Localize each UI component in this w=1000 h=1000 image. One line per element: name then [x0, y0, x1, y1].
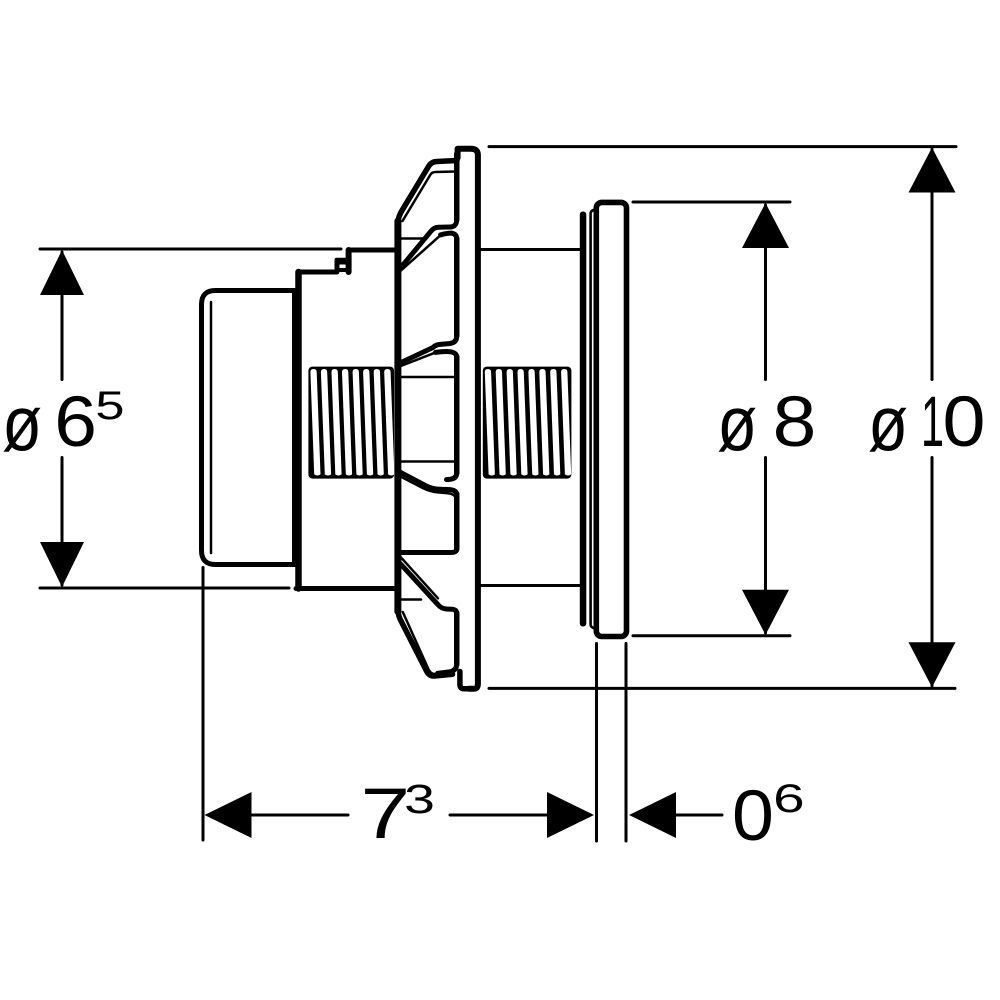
- plate top cap: [458, 149, 478, 689]
- svg-text:0: 0: [943, 383, 986, 462]
- cone bottom inner thin: [403, 612, 446, 674]
- tooth gap3 diagonal: [399, 471, 457, 493]
- button cap outline: [202, 291, 295, 565]
- dia8 arrow up: [742, 203, 789, 248]
- dim ext line bottom left: [40, 587, 289, 590]
- plate B: [591, 210, 603, 628]
- svg-text:ø: ø: [2, 379, 42, 467]
- sleeve silhouette thin bottom: [481, 584, 581, 587]
- bottom tooth hook: [438, 665, 457, 674]
- dim73 line right: [450, 814, 547, 817]
- tooth gap4 diagonal: [400, 563, 457, 613]
- dim73 arrow right: [547, 792, 594, 838]
- nut step vertical: [346, 250, 352, 272]
- dim73 arrow left: [205, 792, 252, 838]
- dim06 tail line: [674, 814, 722, 817]
- button face inner line: [210, 302, 213, 553]
- wall plate C: [596, 202, 626, 636]
- sleeve silhouette thin top: [481, 248, 581, 251]
- tooth seg3 top curl: [436, 352, 457, 357]
- thread left white ribs: [310, 369, 394, 476]
- dim06 arrow left-pointing: [629, 792, 676, 838]
- thread left section background: [308, 367, 394, 479]
- svg-text:6: 6: [54, 383, 97, 462]
- dim73 line left: [252, 814, 348, 817]
- tooth seg2 top curl: [441, 233, 457, 238]
- tube root top thin: [401, 376, 454, 379]
- tube root bottom thin: [401, 460, 454, 463]
- svg-text:ø: ø: [868, 379, 908, 467]
- cone bottom diagonal: [398, 608, 453, 676]
- dia65 arrow down: [40, 542, 84, 587]
- svg-text:ø: ø: [717, 379, 757, 467]
- tooth gap3 thin return: [399, 476, 455, 497]
- dia8 arrow down: [742, 590, 789, 635]
- dia10 ext bottom: [489, 687, 955, 690]
- svg-text:3: 3: [404, 776, 435, 822]
- tooth gap2 hook: [399, 336, 457, 364]
- cone rim vertical: [394, 221, 401, 612]
- svg-text:5: 5: [95, 384, 124, 428]
- dia10 dim line: [931, 149, 934, 380]
- plate bottom cap left: [460, 672, 470, 689]
- dia65 dim line: [61, 252, 64, 380]
- cone top inner thin: [403, 172, 457, 222]
- thread right section background: [483, 367, 572, 479]
- dia8 ext top: [633, 201, 790, 204]
- svg-text:8: 8: [773, 383, 817, 462]
- cone top diagonal: [398, 161, 457, 225]
- thread right white ribs: [485, 369, 571, 476]
- dia10 arrow down: [909, 642, 956, 687]
- tooth gap1 thin stub: [400, 237, 425, 240]
- gasket plate A: [580, 212, 587, 627]
- serrated plate left edge segments: [454, 154, 460, 665]
- tooth gap4 thin parallel: [400, 556, 439, 599]
- tooth gap3 hook: [447, 473, 457, 480]
- dim ext line top left: [40, 248, 341, 251]
- tooth gap1 thin return: [399, 235, 441, 272]
- dia65 arrow up: [40, 250, 84, 295]
- dia10 ext top: [489, 145, 956, 148]
- tooth gap1 hook: [400, 220, 457, 269]
- svg-text:1: 1: [921, 383, 944, 462]
- nut notch square: [337, 260, 349, 270]
- dia10 arrow up: [909, 148, 956, 193]
- svg-text:0: 0: [732, 777, 774, 856]
- dia8 dim line: [764, 205, 767, 380]
- mounting nut body: [299, 250, 398, 272]
- tooth gap4 thin return: [400, 598, 422, 601]
- button right edge: [292, 291, 297, 565]
- outlet tube lines: [595, 644, 598, 842]
- dim73 ext left: [202, 568, 205, 841]
- tooth gap4 hook: [400, 549, 457, 553]
- svg-text:6: 6: [773, 777, 805, 821]
- tooth gap2 thin return: [400, 352, 437, 366]
- dia8 ext bottom: [633, 634, 790, 637]
- svg-text:7: 7: [361, 775, 411, 854]
